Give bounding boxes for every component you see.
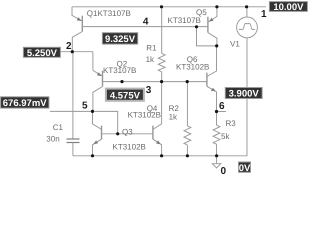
svg-text:KT3107B: KT3107B <box>103 66 136 75</box>
voltage label node 2: 5.250V <box>23 47 60 59</box>
svg-text:3.900V: 3.900V <box>229 89 260 100</box>
wire node 5 to bases corner <box>93 111 118 133</box>
resistor R1 bottom lead to node 3 <box>161 72 163 82</box>
svg-text:30n: 30n <box>46 135 59 144</box>
resistor R3 top lead from node 6 <box>216 112 218 126</box>
svg-text:1k: 1k <box>169 113 178 122</box>
voltage label node 6: 3.900V <box>225 88 262 100</box>
capacitor C1 <box>67 139 80 143</box>
junction rail Q4 emitter <box>160 154 163 157</box>
svg-text:V1: V1 <box>230 39 240 48</box>
wire node 2 down to Q2 emitter <box>92 52 94 71</box>
svg-text:2: 2 <box>66 41 72 52</box>
junction rail R2 bottom <box>186 154 189 157</box>
wire node 4 to Q5 collector loop <box>197 27 217 46</box>
voltage label node 0: 0V <box>239 162 251 174</box>
svg-text:5: 5 <box>82 100 88 111</box>
ground symbol node 0 <box>212 156 220 168</box>
resistor R1 <box>158 53 165 71</box>
voltage label node 4: 9.325V <box>102 33 137 45</box>
svg-text:10.00V: 10.00V <box>273 2 304 13</box>
source V1 (pulse source) <box>237 17 258 38</box>
junction node 3 / R1 / Q4 collector <box>160 80 163 83</box>
capacitor C1 bottom lead <box>72 143 74 156</box>
resistor R2 top lead from node 3 <box>186 82 188 126</box>
wire node 5 horizontal from label <box>50 110 93 112</box>
svg-text:6: 6 <box>219 101 225 112</box>
wire V1 top lead <box>246 7 248 17</box>
junction node 5 <box>91 110 94 113</box>
transistor Q4 (NPN KT3102B mirror) <box>153 82 162 156</box>
transistor Q3 (NPN KT3102B, diode connected) <box>93 111 102 155</box>
svg-text:4.575V: 4.575V <box>110 90 141 101</box>
svg-text:KT3102B: KT3102B <box>176 63 209 72</box>
wire node 3 (Q2 base to Q6 base) <box>103 81 207 83</box>
svg-text:676.97mV: 676.97mV <box>3 98 48 109</box>
junction node 4 loop <box>195 25 198 28</box>
resistor R2 bottom lead <box>186 145 188 156</box>
svg-text:Q1KT3107B: Q1KT3107B <box>87 9 131 18</box>
junction node 2 <box>71 50 74 53</box>
resistor R2 <box>184 126 191 145</box>
voltage label node 5: 676.97mV <box>1 97 49 109</box>
svg-text:R1: R1 <box>146 44 157 53</box>
capacitor C1 top lead from node 2 <box>72 52 74 139</box>
transistor Q2 (PNP KT3107B) <box>93 70 103 111</box>
transistor Q6 (NPN KT3102B emitter follower) <box>207 46 217 112</box>
svg-text:KT3107B: KT3107B <box>168 16 201 25</box>
svg-text:0V: 0V <box>239 163 251 174</box>
svg-text:0: 0 <box>221 166 227 177</box>
junction rail Q3 emitter <box>91 154 94 157</box>
wire node 4 rail (Q1 base to Q5 base) <box>82 26 208 28</box>
svg-text:9.325V: 9.325V <box>105 34 136 45</box>
transistor Q5 (PNP KT3107B, diode connected) <box>208 7 217 46</box>
wire node 2 horizontal <box>61 51 93 53</box>
svg-text:R3: R3 <box>226 119 237 128</box>
resistor R3 <box>213 125 220 144</box>
transistor Q1 (PNP KT3107B) <box>72 7 82 52</box>
svg-text:3: 3 <box>146 85 152 96</box>
junction node 1 / V1 top <box>245 5 248 8</box>
wire node 6 stub <box>217 111 227 113</box>
resistor R3 bottom lead <box>216 144 218 156</box>
junction node 3 left <box>120 80 123 83</box>
svg-text:KT3102B: KT3102B <box>113 143 146 152</box>
junction rail R3 bottom / ground <box>215 154 218 157</box>
junction node 1 / Q5 emitter <box>215 5 218 8</box>
wire top rail node 1 <box>72 6 266 8</box>
wire V1 bottom lead to bottom rail <box>246 38 248 156</box>
svg-text:1k: 1k <box>146 55 155 64</box>
svg-text:4: 4 <box>143 17 149 28</box>
svg-text:1: 1 <box>261 9 267 20</box>
svg-text:5.250V: 5.250V <box>27 48 58 59</box>
voltage label node 3: 4.575V (selected) <box>106 89 144 102</box>
wire Q3 Q4 base line <box>102 133 153 135</box>
svg-text:5k: 5k <box>221 132 230 141</box>
svg-text:C1: C1 <box>53 123 64 132</box>
svg-text:KT3102B: KT3102B <box>128 111 161 120</box>
junction node 3 / R2 top <box>186 80 189 83</box>
junction node 5 / base line <box>116 132 119 135</box>
voltage label node 1: 10.00V <box>269 2 307 13</box>
junction node 1 / R1 top <box>160 5 163 8</box>
svg-text:Q3: Q3 <box>122 127 133 136</box>
junction Q5 collector / node 4 loop <box>215 44 218 47</box>
junction node 6 <box>215 110 218 113</box>
resistor R1 top lead from 10V rail <box>161 7 163 54</box>
wire bottom rail node 0 <box>73 155 247 157</box>
